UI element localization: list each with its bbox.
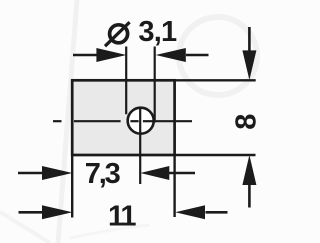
dimension arrow 7,3 right <box>140 166 195 180</box>
horizontal centerline of hole <box>53 120 192 122</box>
extension line, hole left edge up <box>125 47 127 115</box>
dimension arrow 11 left <box>19 205 73 219</box>
svg-text:7,3: 7,3 <box>85 158 121 190</box>
dimension arrow Ø right <box>156 48 209 62</box>
dimension arrow 8 top (down) <box>242 27 256 80</box>
part body outline 11 x 8 <box>72 80 174 155</box>
extension line, top edge to right <box>175 79 256 81</box>
dimension arrow 8 bottom (up) <box>242 155 256 208</box>
svg-text:8: 8 <box>231 114 263 130</box>
watermark circle <box>179 17 257 95</box>
extension line, right edge downward <box>173 155 175 217</box>
watermark diagonal stem <box>58 0 77 243</box>
svg-text:3,1: 3,1 <box>138 16 177 48</box>
extension line, hole right edge up <box>154 47 156 123</box>
watermark bottom curve <box>70 225 150 238</box>
diameter symbol Ø <box>105 22 130 46</box>
dimension arrow 7,3 left <box>18 166 72 180</box>
svg-text:11: 11 <box>108 200 136 232</box>
extension line, bottom edge to right <box>175 154 256 156</box>
dimension arrow Ø left <box>73 48 126 62</box>
hole Ø 3,1 <box>128 108 154 134</box>
dimension arrow 11 right <box>175 205 227 219</box>
vertical centerline of hole <box>139 107 141 184</box>
watermark lower diagonal <box>0 212 50 243</box>
extension line, left edge downward <box>71 155 73 218</box>
